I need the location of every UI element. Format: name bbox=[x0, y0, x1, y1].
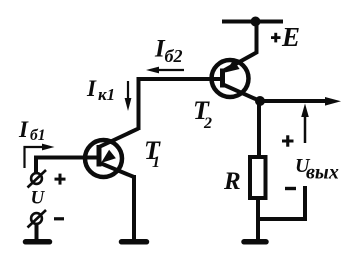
svg-text:2: 2 bbox=[203, 115, 212, 132]
wire: Uвых minus-side bracket bbox=[258, 186, 305, 219]
svg-text:I: I bbox=[18, 117, 29, 142]
label − (input) bbox=[54, 217, 64, 220]
arrow: Uвых direction bbox=[304, 116, 307, 143]
svg-text:U: U bbox=[31, 188, 46, 209]
wire: T2 emitter to +E rail bbox=[223, 20, 257, 72]
wire: input to T1 base bbox=[36, 158, 98, 174]
current arrow Iк1 bbox=[127, 81, 129, 101]
transistor T1: body circle bbox=[85, 140, 122, 177]
transistor T1: collector lead bbox=[99, 129, 139, 148]
label + (output) bbox=[282, 135, 294, 146]
svg-text:к1: к1 bbox=[98, 85, 115, 104]
transistor T1: base bar bbox=[97, 145, 102, 167]
transistor T1: emitter lead bbox=[100, 163, 134, 177]
svg-text:E: E bbox=[281, 22, 300, 52]
label Iб2 bbox=[154, 36, 182, 67]
ground: R bbox=[244, 239, 266, 245]
label Uвых bbox=[295, 155, 339, 184]
transistor T2: emitter arrow bbox=[225, 60, 240, 73]
current arrow Iб1 bbox=[25, 147, 47, 168]
wire: T1 collector to T2 base bbox=[137, 77, 224, 81]
wire: T1 emitter down bbox=[132, 175, 136, 241]
ground: input bbox=[26, 239, 50, 245]
svg-text:I: I bbox=[86, 76, 97, 101]
terminal: input minus bbox=[28, 210, 47, 228]
current arrow Iб2 bbox=[152, 69, 184, 71]
transistor T1: emitter arrow bbox=[101, 150, 116, 163]
resistor R bbox=[250, 157, 266, 198]
node: junction on +E rail bbox=[251, 17, 261, 27]
label Iк1 bbox=[86, 76, 115, 104]
ground: T1 emitter bbox=[122, 239, 147, 245]
wire: minus terminal to ground bbox=[35, 224, 39, 241]
terminal: input plus bbox=[28, 170, 47, 188]
svg-text:вых: вых bbox=[306, 162, 339, 184]
transistor T2: collector lead bbox=[223, 85, 260, 102]
label − (output) bbox=[285, 187, 296, 190]
transistor T2: base bar bbox=[220, 69, 225, 88]
label T1 bbox=[144, 136, 161, 171]
svg-text:б1: б1 bbox=[30, 127, 46, 144]
svg-text:R: R bbox=[223, 168, 241, 195]
wire: output with arrow bbox=[260, 99, 328, 103]
transistor T2: body circle bbox=[212, 60, 249, 97]
wire: junction to resistor bbox=[257, 99, 261, 157]
svg-text:1: 1 bbox=[152, 154, 160, 171]
label T2 bbox=[193, 96, 212, 132]
label +E bbox=[271, 22, 300, 52]
wire: +E supply rail bbox=[222, 20, 283, 24]
label + (input) bbox=[55, 174, 66, 185]
wire: T1 collector riser bbox=[137, 77, 141, 130]
svg-text:б2: б2 bbox=[165, 46, 183, 66]
node: T2 collector junction bbox=[255, 96, 265, 106]
wire: resistor to ground bbox=[256, 198, 260, 241]
label Iб1 bbox=[18, 117, 46, 144]
